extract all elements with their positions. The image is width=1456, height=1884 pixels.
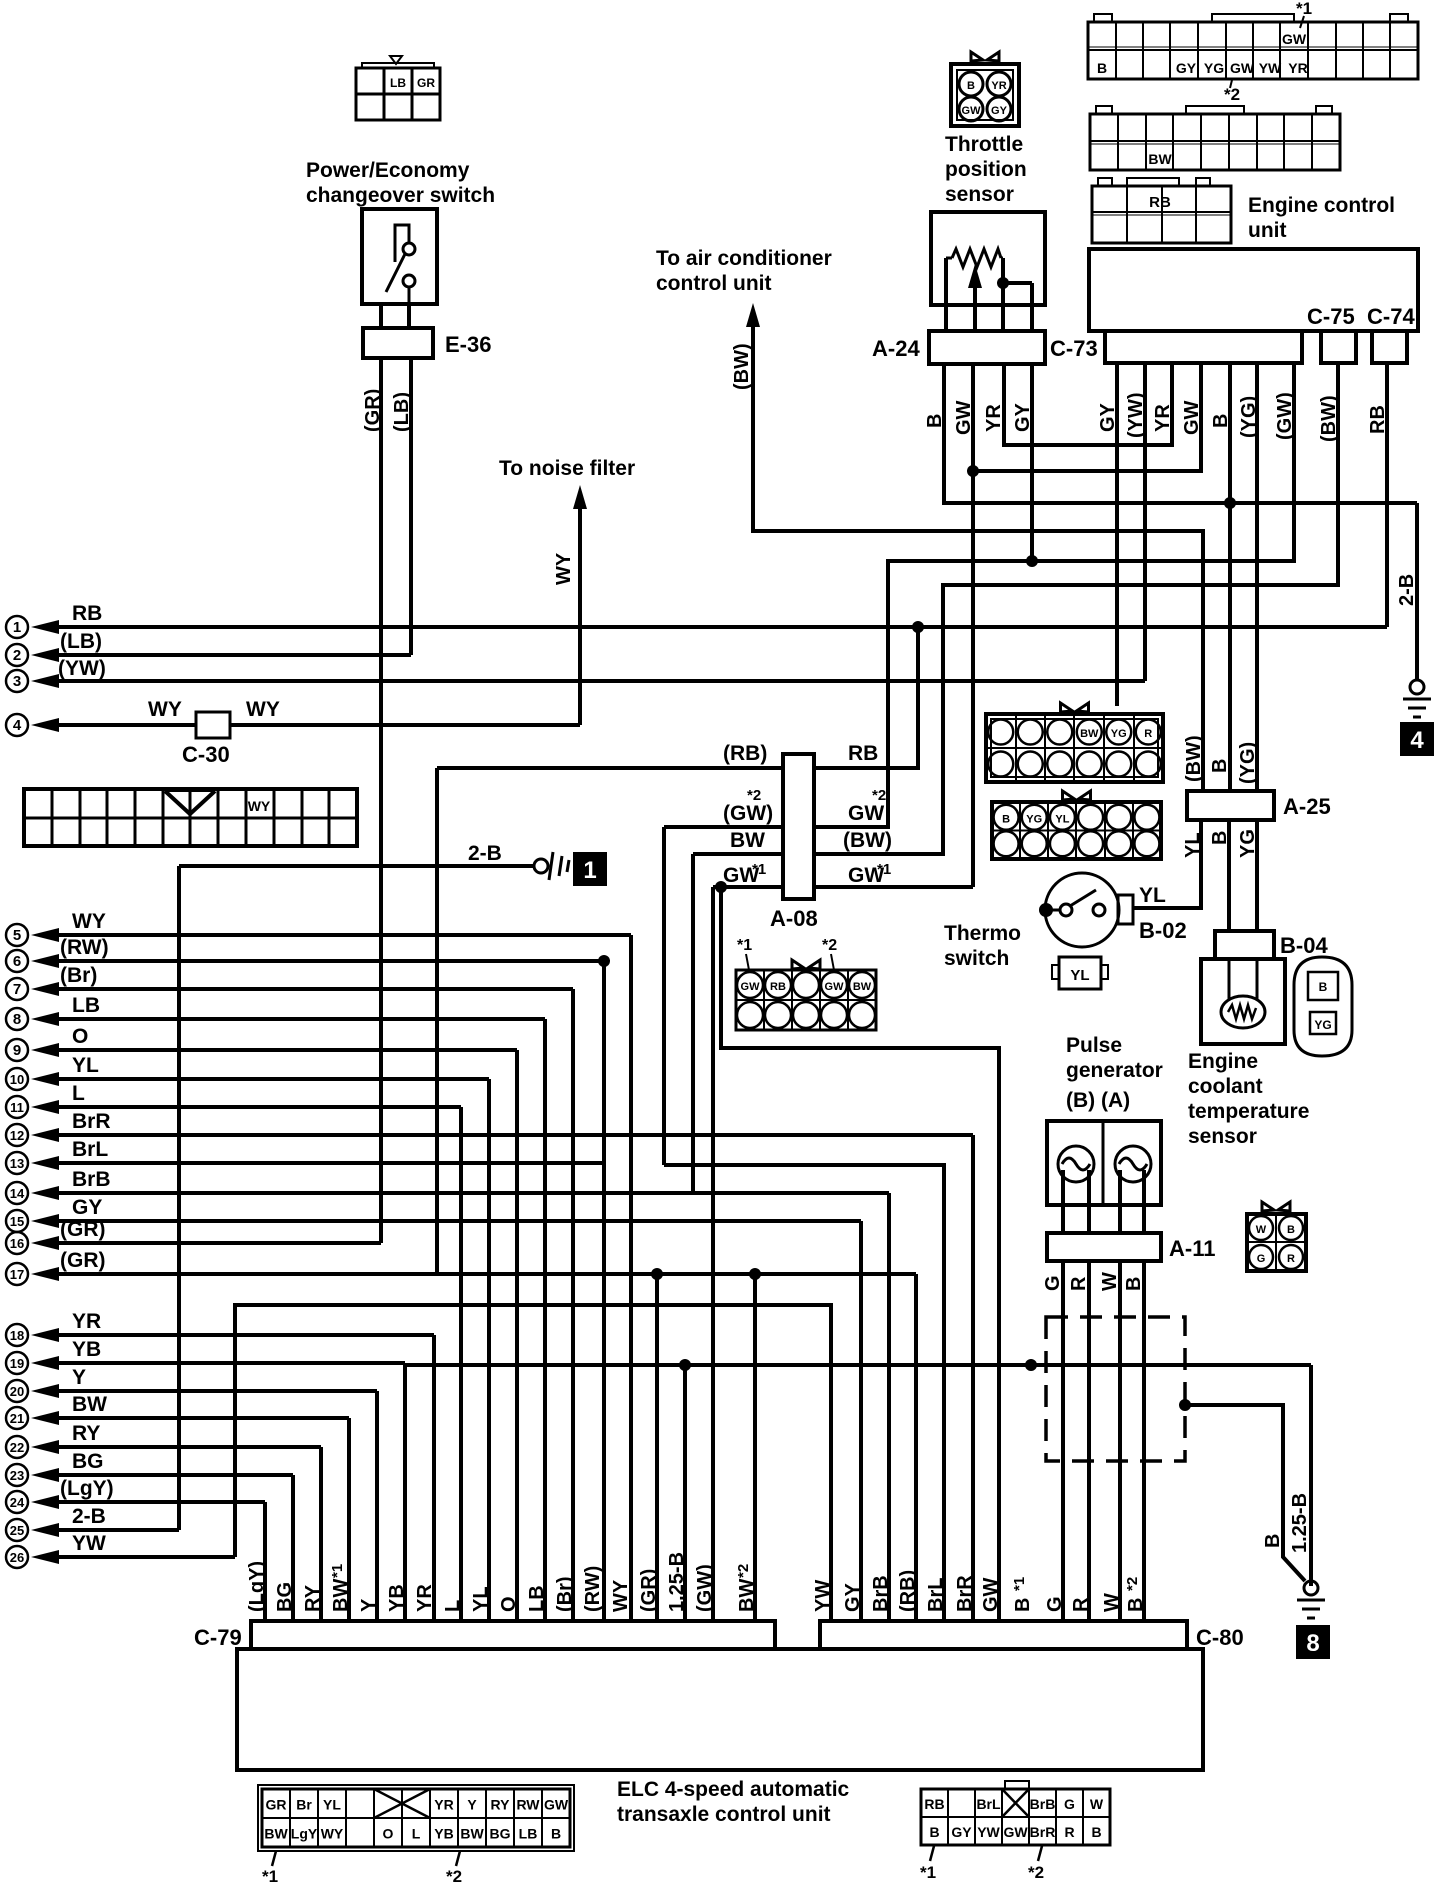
wire A-24 GY down to junction <box>1030 364 1034 561</box>
throttle position sensor box with potentiometer <box>931 212 1045 305</box>
wire BrR down to C-80 <box>971 1135 975 1621</box>
svg-text:*1: *1 <box>737 937 752 954</box>
wire A-08 GW*1 left down to C-79 (GW) <box>711 887 715 1621</box>
wire YR down to C-79 <box>432 1335 436 1621</box>
terminal circle 14 <box>6 1182 28 1204</box>
svg-text:26: 26 <box>10 1550 24 1565</box>
wire A-08 (RB) left down to wire 17 <box>435 768 439 1274</box>
connector icon left 12x2 grid with WY <box>24 789 357 846</box>
svg-text:BW: BW <box>730 829 765 852</box>
svg-text:1.25-B: 1.25-B <box>1289 1493 1311 1553</box>
wire ground line to ground 8 <box>405 1363 1311 1367</box>
connector icon [YL] small <box>1059 957 1101 989</box>
wire 24 (LgY) <box>31 1495 59 1509</box>
wire O down to connector <box>515 1050 519 1621</box>
svg-text:1: 1 <box>583 857 596 884</box>
svg-text:To noise filter: To noise filter <box>499 457 635 480</box>
wire 20 Y <box>31 1384 59 1398</box>
ground 8 open circle <box>1304 1581 1318 1595</box>
connector A-24 bar <box>929 331 1045 364</box>
wire 1 RB <box>31 620 59 634</box>
junction GW*1 branch <box>715 881 727 893</box>
svg-text:RB: RB <box>72 602 102 625</box>
ground 1 black box <box>573 852 607 886</box>
svg-text:(GR): (GR) <box>60 1249 106 1272</box>
svg-text:9: 9 <box>13 1042 21 1059</box>
wire (RW) vertical down to C-79 <box>602 961 606 1621</box>
wire 11 L <box>31 1100 59 1114</box>
svg-text:23: 23 <box>10 1468 24 1483</box>
wire (RW) down to connector <box>602 961 606 1621</box>
svg-text:BrB: BrB <box>870 1575 892 1612</box>
wire G below A-11 <box>1061 1261 1065 1621</box>
svg-text:RY: RY <box>491 1797 511 1813</box>
svg-text:B: B <box>1097 60 1107 76</box>
svg-text:*2: *2 <box>1224 85 1240 104</box>
svg-text:(GR): (GR) <box>638 1569 660 1612</box>
svg-text:10: 10 <box>10 1072 24 1087</box>
svg-text:2: 2 <box>13 647 21 664</box>
svg-text:BW: BW <box>330 1579 352 1612</box>
wire 22 RY <box>31 1440 59 1454</box>
svg-text:*2: *2 <box>735 1564 752 1578</box>
wire 14 BrB <box>31 1186 59 1200</box>
svg-text:BrL: BrL <box>925 1578 947 1612</box>
svg-text:W: W <box>1099 1272 1121 1291</box>
svg-text:12: 12 <box>10 1128 24 1143</box>
svg-text:WY: WY <box>148 698 182 721</box>
junction C-73 B on ground line <box>1224 497 1236 509</box>
svg-text:YL: YL <box>1070 967 1089 984</box>
connector C-73 bar <box>1105 331 1302 363</box>
svg-text:YL: YL <box>1182 832 1204 858</box>
wire W below A-11 <box>1118 1261 1122 1621</box>
svg-text:YB: YB <box>434 1826 453 1842</box>
svg-text:GW: GW <box>962 105 982 117</box>
connector B-04 bar <box>1215 931 1274 959</box>
terminal circle 16 <box>6 1232 28 1254</box>
terminal circle 7 <box>6 978 28 1000</box>
svg-text:4: 4 <box>1410 727 1424 754</box>
svg-text:YW: YW <box>1259 60 1282 76</box>
connector C-80 bar <box>820 1621 1187 1649</box>
svg-text:21: 21 <box>10 1411 24 1426</box>
svg-text:1: 1 <box>13 619 21 636</box>
svg-text:YW: YW <box>812 1580 834 1612</box>
svg-text:RY: RY <box>72 1422 100 1445</box>
svg-text:YW: YW <box>977 1824 1000 1840</box>
svg-text:control unit: control unit <box>656 272 771 295</box>
svg-text:C-30: C-30 <box>182 742 230 767</box>
junction on dashed box to ground <box>1179 1399 1191 1411</box>
wire 8 LB <box>31 1012 59 1026</box>
terminal circle 23 <box>6 1464 28 1486</box>
wire 4 WY right of C-30 <box>230 723 580 727</box>
svg-text:(Br): (Br) <box>554 1576 576 1612</box>
svg-text:L: L <box>442 1600 464 1612</box>
svg-text:25: 25 <box>10 1523 24 1538</box>
engine coolant temperature sensor body <box>1201 959 1285 1044</box>
svg-text:O: O <box>498 1596 520 1612</box>
svg-text:BrL: BrL <box>72 1138 108 1161</box>
pulse generator box <box>1047 1121 1161 1205</box>
svg-text:2-B: 2-B <box>1396 574 1418 606</box>
wire BrB down to connector <box>887 1193 891 1621</box>
svg-text:W: W <box>1101 1593 1123 1612</box>
connector icon bottom-right pin grid <box>921 1789 1110 1845</box>
svg-text:BG: BG <box>274 1582 296 1612</box>
wire C-73 GY down <box>1115 363 1119 706</box>
wire C-75 (BW) to A-08 (BW) right <box>814 363 1338 854</box>
svg-text:(LgY): (LgY) <box>246 1561 268 1612</box>
terminal circle 24 <box>6 1491 28 1513</box>
svg-text:B: B <box>929 1824 939 1840</box>
wire 1.25-B down to C-79 <box>683 1365 687 1621</box>
connector A-25 bar <box>1187 791 1274 820</box>
svg-text:YR: YR <box>414 1584 436 1612</box>
terminal circle 26 <box>6 1546 28 1568</box>
terminal circle 1 <box>6 616 28 638</box>
svg-text:GY: GY <box>991 105 1008 117</box>
svg-text:GR: GR <box>417 76 435 90</box>
svg-text:GW: GW <box>980 1577 1002 1612</box>
wire (GR) down to connector <box>914 1274 918 1621</box>
svg-text:(GW): (GW) <box>694 1564 716 1612</box>
svg-text:11: 11 <box>10 1100 24 1115</box>
svg-text:*1: *1 <box>1011 1577 1028 1591</box>
svg-text:YG: YG <box>1111 728 1127 740</box>
wire A-08 (RB) left <box>437 766 783 770</box>
svg-text:RY: RY <box>302 1584 324 1612</box>
svg-text:temperature: temperature <box>1188 1100 1309 1123</box>
wire RY down to C-79 <box>319 1447 323 1621</box>
svg-text:(B) (A): (B) (A) <box>1066 1089 1130 1112</box>
wire L down to connector <box>459 1107 463 1621</box>
connector A-08 bar <box>783 754 814 899</box>
svg-text:BW: BW <box>72 1393 107 1416</box>
label *2 bottom-right grid <box>1038 1846 1042 1861</box>
junction TPS to GY <box>997 277 1009 289</box>
svg-text:RW: RW <box>516 1797 540 1813</box>
svg-text:(RB): (RB) <box>723 742 767 765</box>
terminal circle 12 <box>6 1124 28 1146</box>
svg-text:LB: LB <box>390 76 406 90</box>
svg-text:YR: YR <box>991 80 1006 92</box>
wire TPS pin B inside <box>944 258 948 331</box>
svg-text:(LB): (LB) <box>391 392 413 432</box>
svg-text:C-79: C-79 <box>194 1625 242 1650</box>
wire (LgY) down to C-79 <box>263 1502 267 1621</box>
svg-text:24: 24 <box>10 1495 25 1510</box>
terminal circle 2 <box>6 644 28 666</box>
svg-text:R: R <box>1064 1824 1074 1840</box>
svg-text:B: B <box>1125 1598 1147 1612</box>
svg-text:GY: GY <box>72 1196 102 1219</box>
wire G pulse gen <box>1061 1170 1065 1233</box>
svg-text:B: B <box>1002 813 1010 825</box>
svg-text:BrB: BrB <box>72 1168 111 1191</box>
connector A-11 bar <box>1047 1233 1161 1261</box>
wire (GR) from E-36 down <box>379 358 383 1243</box>
connector icon 12-pin (B YG YL) <box>992 802 1161 859</box>
svg-text:(BW): (BW) <box>731 343 753 390</box>
svg-text:ELC 4-speed automatic: ELC 4-speed automatic <box>617 1778 850 1801</box>
svg-text:GR: GR <box>266 1797 287 1813</box>
terminal circle 3 <box>6 670 28 692</box>
svg-text:*2: *2 <box>446 1867 462 1884</box>
terminal circle 6 <box>6 950 28 972</box>
wire BW down to C-79 <box>347 1418 351 1621</box>
wire B from dashed box to ground 8 <box>1185 1405 1305 1581</box>
junction B*1 on ground line <box>1025 1359 1037 1371</box>
svg-text:LgY: LgY <box>291 1826 318 1842</box>
svg-text:YL: YL <box>323 1797 341 1813</box>
terminal circle 25 <box>6 1519 28 1541</box>
svg-text:YB: YB <box>72 1338 101 1361</box>
svg-text:Y: Y <box>72 1366 86 1389</box>
svg-text:RB: RB <box>848 742 878 765</box>
svg-text:WY: WY <box>246 698 280 721</box>
wire A-24 GW vertical down to A-08 GW*1 right <box>971 364 975 887</box>
svg-text:YR: YR <box>72 1310 101 1333</box>
svg-text:13: 13 <box>10 1156 24 1171</box>
wire 17 junction (GR) down <box>651 1268 663 1280</box>
svg-text:O: O <box>383 1826 394 1842</box>
wire from junction down to A-08 RB right <box>814 627 918 768</box>
wire 18 YR <box>31 1328 59 1342</box>
engine control unit box U1 <box>1089 249 1418 331</box>
svg-text:G: G <box>1044 1596 1066 1612</box>
connector C-79 bar <box>251 1621 775 1649</box>
svg-text:E-36: E-36 <box>445 332 491 357</box>
label *1 bottom-right grid <box>930 1846 934 1861</box>
wire W pulse gen <box>1118 1170 1122 1233</box>
wire 17 (GR) <box>31 1267 59 1281</box>
junction A-24 GY on GW*2 line <box>1026 555 1038 567</box>
terminal circle 8 <box>6 1008 28 1030</box>
svg-text:BW: BW <box>736 1579 758 1612</box>
svg-text:position: position <box>945 158 1027 181</box>
svg-text:RB: RB <box>924 1796 944 1812</box>
wire A-08 RB right <box>814 766 918 770</box>
svg-text:GW: GW <box>1230 60 1255 76</box>
wire R below A-11 <box>1087 1261 1091 1621</box>
connector icon 4-pin throttle position sensor (B YR GW GY) <box>951 64 1019 126</box>
connector E-36 <box>363 328 433 358</box>
svg-text:R: R <box>1287 1253 1295 1265</box>
svg-text:7: 7 <box>13 981 21 998</box>
svg-text:*1: *1 <box>329 1564 346 1578</box>
connector C-74 stub <box>1372 331 1407 363</box>
svg-text:Power/Economy: Power/Economy <box>306 159 470 182</box>
wire B A-25 to B-04 <box>1227 820 1231 931</box>
wire 10 YL <box>31 1072 59 1086</box>
svg-text:4: 4 <box>13 717 22 734</box>
wire C-73 (YG) down to A-25 <box>1255 363 1259 791</box>
wire 7 (Br) <box>31 982 59 996</box>
switch S1 Power/Economy changeover switch body <box>362 209 437 304</box>
svg-text:BW: BW <box>264 1826 288 1842</box>
svg-text:A-24: A-24 <box>872 336 920 361</box>
svg-text:WY: WY <box>248 798 271 814</box>
label *1 bottom-left grid <box>272 1851 276 1866</box>
svg-text:Br: Br <box>296 1797 312 1813</box>
dashed box around pulse generator wires <box>1046 1317 1185 1461</box>
svg-text:W: W <box>1090 1796 1104 1812</box>
thermo switch B-02 body <box>1045 873 1119 947</box>
svg-text:*2: *2 <box>872 787 886 804</box>
svg-text:1.25-B: 1.25-B <box>666 1552 688 1612</box>
svg-text:B: B <box>551 1826 561 1842</box>
svg-text:GW: GW <box>1003 1824 1028 1840</box>
terminal circle 20 <box>6 1380 28 1402</box>
wire A-24 B to ground 4 line <box>944 364 1417 503</box>
svg-text:*2: *2 <box>1124 1577 1141 1591</box>
svg-text:*1: *1 <box>920 1863 936 1882</box>
svg-text:BW: BW <box>1080 728 1099 740</box>
svg-text:20: 20 <box>10 1384 24 1399</box>
wire 5 WY <box>31 928 59 942</box>
svg-text:YB: YB <box>386 1584 408 1612</box>
terminal circle 13 <box>6 1152 28 1174</box>
svg-text:B: B <box>1123 1277 1145 1291</box>
svg-text:(LB): (LB) <box>60 630 102 653</box>
wire TPS wiper arrow <box>968 264 982 288</box>
svg-text:(RW): (RW) <box>582 1566 604 1612</box>
svg-text:LB: LB <box>72 994 100 1017</box>
wire GY down to connector <box>859 1221 863 1621</box>
svg-text:17: 17 <box>10 1267 24 1282</box>
wire 25 2-B up to ground 1 <box>31 1523 59 1537</box>
svg-text:Throttle: Throttle <box>945 133 1023 156</box>
svg-text:transaxle control unit: transaxle control unit <box>617 1803 831 1826</box>
svg-text:Thermo: Thermo <box>944 922 1021 945</box>
svg-text:sensor: sensor <box>945 183 1014 206</box>
svg-text:coolant: coolant <box>1188 1075 1263 1098</box>
ELC control unit box <box>237 1649 1203 1770</box>
svg-text:Engine control: Engine control <box>1248 194 1395 217</box>
connector icon 4-pin W B G R <box>1247 1214 1306 1271</box>
svg-text:22: 22 <box>10 1440 24 1455</box>
svg-text:unit: unit <box>1248 219 1286 242</box>
svg-text:GY: GY <box>951 1824 972 1840</box>
ground 8 symbol <box>1297 1599 1325 1602</box>
wire 26 YW <box>31 1550 59 1564</box>
svg-text:W: W <box>1256 1224 1267 1236</box>
svg-text:BrR: BrR <box>954 1575 976 1612</box>
wire 2-B to ground 1 <box>179 864 533 868</box>
connector icon ECU 4x2 pin grid (RB) <box>1092 186 1231 243</box>
svg-text:8: 8 <box>1306 1630 1319 1657</box>
svg-text:(BW): (BW) <box>843 829 892 852</box>
label *2 bottom-left grid <box>456 1851 460 1866</box>
svg-text:2-B: 2-B <box>72 1505 106 1528</box>
connector C-30 <box>196 712 230 738</box>
svg-text:(YW): (YW) <box>58 657 106 680</box>
svg-text:WY: WY <box>610 1579 632 1612</box>
wire 12 BrR <box>31 1128 59 1142</box>
svg-text:(BW): (BW) <box>1183 735 1205 782</box>
terminal circle 15 <box>6 1210 28 1232</box>
terminal circle 19 <box>6 1352 28 1374</box>
ground 8 black box <box>1296 1625 1330 1659</box>
wire A-08 (GW)*2 left <box>664 825 783 829</box>
svg-text:14: 14 <box>10 1186 25 1201</box>
svg-text:(GR): (GR) <box>362 389 384 432</box>
junction wire1 to A-08 RB <box>912 621 924 633</box>
svg-text:BG: BG <box>72 1450 104 1473</box>
svg-text:WY: WY <box>553 552 575 585</box>
wire 4 WY left of C-30 <box>31 718 59 732</box>
svg-text:*2: *2 <box>747 787 761 804</box>
connector icon bottom-left pin grid <box>262 1789 570 1847</box>
ground 1 symbol <box>549 852 553 880</box>
wire 2 (LB) <box>31 648 59 662</box>
connector icon 12-pin (BW YG R) <box>986 714 1163 782</box>
svg-text:3: 3 <box>13 673 21 690</box>
wire BG down to C-79 <box>291 1475 295 1621</box>
junction wire 6 (RW) vertical <box>598 955 610 967</box>
svg-text:BrR: BrR <box>1030 1824 1056 1840</box>
svg-text:A-08: A-08 <box>770 906 818 931</box>
wire 6 (RW) <box>31 954 59 968</box>
ground 4 symbol <box>1403 698 1431 701</box>
svg-text:Pulse: Pulse <box>1066 1034 1122 1057</box>
svg-text:B: B <box>1287 1224 1295 1236</box>
svg-text:Engine: Engine <box>1188 1050 1258 1073</box>
terminal circle 10 <box>6 1068 28 1090</box>
svg-text:C-74: C-74 <box>1367 304 1415 329</box>
wire 15 GY <box>31 1214 59 1228</box>
wire B pulse gen <box>1142 1170 1146 1233</box>
wire A-08 GW*1 right <box>814 885 973 889</box>
svg-text:YL: YL <box>1055 813 1069 825</box>
svg-text:WY: WY <box>321 1826 344 1842</box>
svg-text:GY: GY <box>1176 60 1197 76</box>
junction A-24 GW / C-73 GW <box>967 465 979 477</box>
wire B below A-11 <box>1142 1261 1146 1621</box>
wire 13 BrL <box>31 1156 59 1170</box>
svg-text:8: 8 <box>13 1011 21 1028</box>
svg-text:G: G <box>1064 1796 1075 1812</box>
terminal circle 18 <box>6 1324 28 1346</box>
svg-text:YR: YR <box>983 404 1005 432</box>
wire A-08 GW*1 left <box>713 885 783 889</box>
wire WY down to connector <box>629 935 633 1621</box>
wire 9 O <box>31 1043 59 1057</box>
svg-text:*1: *1 <box>262 1867 278 1884</box>
svg-text:16: 16 <box>10 1236 24 1251</box>
svg-text:*2: *2 <box>1028 1863 1044 1882</box>
svg-text:R: R <box>1068 1276 1090 1291</box>
svg-text:GW: GW <box>1282 31 1307 47</box>
ground 4 black box <box>1400 722 1434 756</box>
svg-text:sensor: sensor <box>1188 1125 1257 1148</box>
connector icon ECU 12x2 pin grid *1 <box>1088 22 1418 79</box>
svg-text:RB: RB <box>1149 194 1171 211</box>
svg-text:To air conditioner: To air conditioner <box>656 247 832 270</box>
wire GW*1 branch to C-80 GW <box>721 887 999 1621</box>
svg-text:Y: Y <box>467 1797 477 1813</box>
wire 2-B down to ground 4 <box>1415 503 1419 680</box>
svg-text:G: G <box>1042 1275 1064 1291</box>
wire A-08 BW left <box>693 852 783 856</box>
svg-text:LB: LB <box>526 1585 548 1612</box>
wire YB down to C-79 <box>403 1363 407 1621</box>
svg-text:(LgY): (LgY) <box>60 1477 114 1500</box>
terminal circle 11 <box>6 1096 28 1118</box>
svg-text:RB: RB <box>770 981 786 993</box>
